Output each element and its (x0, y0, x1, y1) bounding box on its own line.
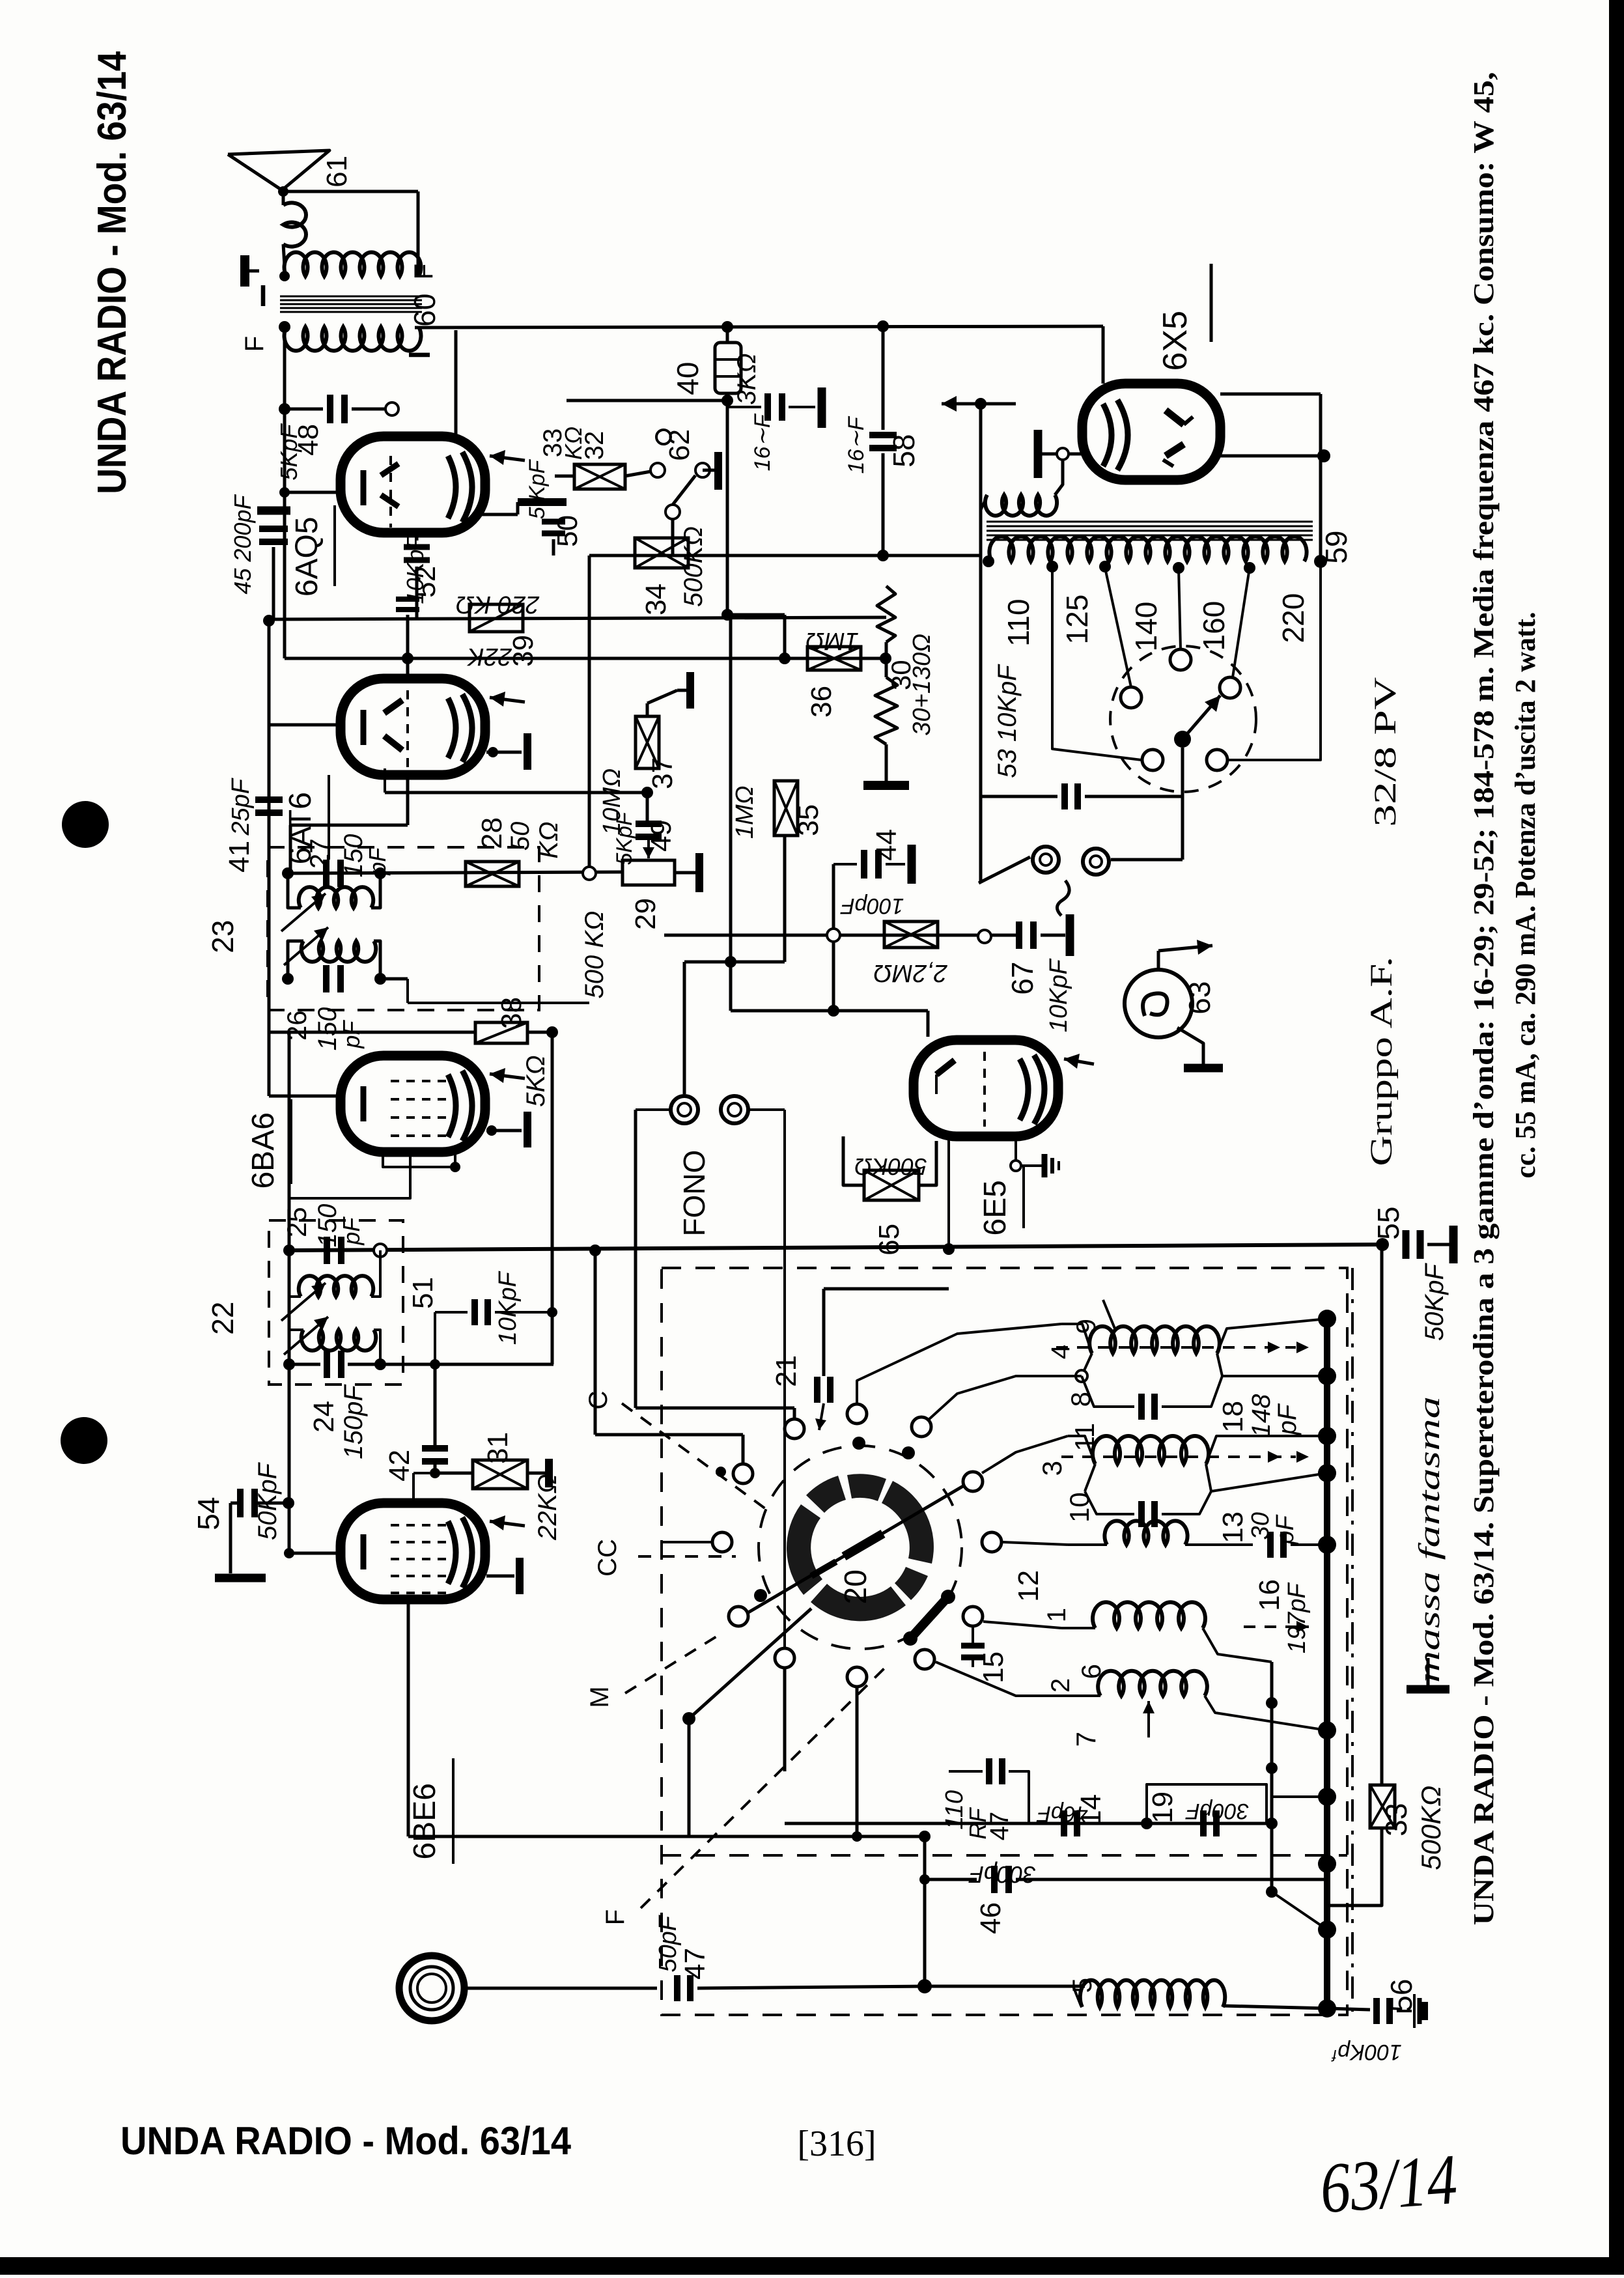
wire 6AT6 bottom (406, 771, 410, 825)
wire x1122 (729, 615, 733, 1011)
lamp ground (1177, 1028, 1203, 1065)
resistor R40 3K (715, 343, 741, 393)
svg-text:19: 19 (1147, 1792, 1179, 1823)
osc coil 9-4-8 (1089, 1327, 1220, 1353)
svg-text:65: 65 (873, 1224, 905, 1256)
wire 6AT6 plate to y1217 (385, 791, 647, 794)
contact c3 (912, 1417, 931, 1437)
wire y1477 (684, 961, 785, 964)
capacitor C45 200pF (257, 507, 290, 515)
antenna 61 (228, 150, 329, 190)
svg-text:29: 29 (630, 898, 662, 930)
resistor R28 50K (466, 862, 519, 886)
svg-text:50: 50 (552, 515, 583, 547)
socket center pin (1174, 731, 1191, 748)
ground bar antenna (240, 255, 249, 287)
node 59 left (983, 555, 994, 567)
capacitor C53 (1061, 783, 1068, 809)
wire y944 link (727, 613, 785, 617)
tap wire 140 (1179, 568, 1181, 649)
wire bus y1011 (285, 657, 886, 660)
wire antenna to frame top (283, 190, 418, 193)
capacitor C55 50KpF (1403, 1230, 1410, 1259)
6BE6 cathode ground (486, 1575, 514, 1578)
svg-text:63: 63 (1183, 981, 1216, 1015)
potentiometer R29 500K (623, 860, 675, 885)
bus node y2205 (1318, 1427, 1336, 1445)
resistor R33 500K (1370, 1785, 1395, 1828)
switch wiper axis (734, 1480, 974, 1621)
dashed arrow 9 (1056, 1346, 1296, 1349)
svg-text:33: 33 (1379, 1803, 1413, 1836)
FONO jack 1 (671, 1096, 698, 1123)
transformer 60 core (280, 296, 422, 298)
capacitor C24 150pF (324, 1351, 330, 1378)
svg-text:500KΩ: 500KΩ (1416, 1786, 1446, 1870)
svg-text:52: 52 (410, 566, 441, 598)
dashed box IF22 (269, 1220, 403, 1385)
node below R40 (721, 395, 733, 406)
capacitor C51 10KpF (471, 1299, 478, 1325)
svg-text:18: 18 (1217, 1401, 1249, 1433)
wire 6X5 top drop (1102, 326, 1105, 384)
bottom bus y2820 (408, 1835, 925, 1838)
capacitor C25pF41 (255, 796, 283, 803)
capacitor C67 10KpF (1016, 921, 1022, 949)
svg-text:CC: CC (593, 1539, 622, 1577)
capacitor C48 5KpF (327, 395, 333, 423)
socket circle (1110, 646, 1256, 792)
wire plate drop (455, 330, 458, 440)
wire contact c4 left (595, 1433, 743, 1437)
wire center pin down (1181, 748, 1184, 860)
svg-text:41: 41 (223, 841, 255, 873)
node x1117 y944 (721, 609, 733, 621)
svg-text:220 KΩ: 220 KΩ (456, 591, 540, 618)
6AT6 cathode ground (486, 751, 522, 754)
bus node y2372 (1318, 1536, 1336, 1554)
svg-text:47: 47 (679, 1948, 711, 1980)
svg-text:62: 62 (664, 429, 695, 461)
svg-text:3KΩ: 3KΩ (733, 353, 761, 404)
grid bus y1920 (289, 1244, 1382, 1250)
osc coil 1-6 (1093, 1602, 1205, 1628)
contact c7 (982, 1532, 1001, 1552)
plate arrow 6E5 (1064, 1059, 1094, 1064)
tap wire 160 (1233, 568, 1250, 677)
contact c10 (775, 1648, 794, 1668)
transformer 60 secondary coil (285, 327, 421, 351)
node bus 584 (374, 1244, 386, 1256)
tube 6BE6 internals (361, 1534, 367, 1569)
IF 22a arrow (281, 1283, 326, 1321)
6BA6 bottom wires (383, 1150, 455, 1167)
node x1420 bottom (917, 1979, 932, 1993)
jack squiggle (1057, 880, 1069, 916)
svg-text:21: 21 (770, 1355, 802, 1387)
wire c9 to coil16 (983, 1622, 1061, 1628)
resistor R30 lower (875, 677, 897, 744)
tube 6AT6 (341, 679, 485, 775)
6E5 cathode ground (1015, 1140, 1017, 1164)
svg-text:22KΩ: 22KΩ (533, 1474, 562, 1541)
svg-text:32: 32 (580, 431, 609, 460)
wire x1051 drop to fono (683, 962, 686, 1094)
svg-text:6BE6: 6BE6 (408, 1783, 442, 1859)
capacitor C47b 110RF (986, 1758, 992, 1784)
svg-text:100Kpᶠ: 100Kpᶠ (1330, 2040, 1401, 2064)
wire switch to bus (671, 519, 675, 555)
node y1217 (641, 787, 653, 798)
IF 22b arrow (284, 1317, 328, 1355)
svg-text:massa fantasma: massa fantasma (1412, 1396, 1446, 1683)
cathode top plate bar (518, 498, 567, 506)
svg-text:I: I (402, 351, 436, 359)
capacitor C19 300pF (1200, 1810, 1207, 1836)
svg-text:F: F (601, 1909, 630, 1925)
capacitor C58 16uF (882, 326, 885, 430)
socket pin NE (1220, 677, 1240, 698)
punch hole lower (61, 1417, 107, 1464)
node 59 right (1314, 555, 1327, 568)
bus node y2862 (1318, 1855, 1336, 1873)
svg-text:35: 35 (792, 804, 824, 836)
svg-text:6X5: 6X5 (1156, 311, 1194, 371)
svg-text:61: 61 (321, 156, 353, 188)
node y1011 left (402, 653, 413, 664)
svg-text:110: 110 (1001, 598, 1035, 646)
svg-text:42: 42 (384, 1450, 415, 1482)
svg-text:5KΩ: 5KΩ (522, 1055, 550, 1106)
svg-text:UNDA RADIO - Mod. 63/14: UNDA RADIO - Mod. 63/14 (120, 2119, 572, 2163)
wire left col to C54 (288, 1032, 291, 1553)
switch 20 dashed circle (759, 1446, 962, 1649)
choke coil (985, 495, 1057, 516)
svg-text:cc. 55 mA, ca. 290 mA. Potenza: cc. 55 mA, ca. 290 mA. Potenza d’uscita … (1509, 612, 1541, 1178)
svg-text:16∼F: 16∼F (750, 413, 775, 471)
node tap140 (1173, 562, 1184, 574)
dashed line inner (662, 1854, 1347, 1857)
svg-text:220: 220 (1276, 593, 1310, 643)
capacitor C26 150pF (323, 965, 329, 992)
wire secondary left down (283, 327, 287, 621)
wire detector line (589, 554, 981, 557)
node tap160 (1244, 562, 1255, 574)
capacitor C27 150pF (323, 860, 329, 887)
tube 6AQ5 internals (361, 470, 367, 505)
node AVC bus C58 (877, 550, 889, 561)
junction circle y1341 (583, 867, 596, 880)
wire 6E5 cathode to bus (947, 1140, 950, 1250)
svg-text:M: M (585, 1686, 614, 1708)
socket pin SW (1142, 750, 1163, 770)
tap wire 125 (1105, 568, 1131, 687)
wire vol bus (406, 979, 409, 1003)
lamp wire arrow (1157, 951, 1160, 970)
socket pin N (1170, 649, 1191, 670)
B+ arrow (982, 402, 1016, 406)
svg-text:22K: 22K (467, 643, 512, 670)
wire left col x1506 (979, 402, 983, 796)
svg-text:5: 5 (1067, 1978, 1097, 1993)
svg-text:50pF: 50pF (654, 1915, 682, 1972)
contact c5 (963, 1472, 983, 1491)
svg-text:100pF: 100pF (840, 893, 904, 918)
wire c2 to coil9 top (857, 1324, 1061, 1403)
svg-text:25pF: 25pF (227, 778, 255, 836)
svg-text:49: 49 (645, 820, 677, 852)
switch 20 wedge SE (895, 1567, 928, 1600)
svg-text:1MΩ: 1MΩ (805, 627, 859, 654)
wire x848 (551, 1032, 554, 1364)
switch 20 dark arc top A2 (882, 1481, 934, 1564)
svg-text:23: 23 (206, 920, 240, 953)
svg-text:9: 9 (1071, 1319, 1101, 1334)
dashed box oscillator (662, 1268, 1347, 2015)
svg-text:34: 34 (640, 584, 672, 615)
svg-text:1MΩ: 1MΩ (731, 785, 759, 839)
contact c9 (963, 1607, 983, 1626)
resistor R32 33K (574, 464, 625, 489)
svg-text:6E5: 6E5 (978, 1180, 1013, 1235)
contact dot c (716, 1467, 726, 1477)
svg-text:63/14: 63/14 (1317, 2139, 1459, 2228)
transformer 60 primary coil (285, 252, 421, 276)
wire c5 to coil11 (982, 1436, 1068, 1473)
svg-text:2: 2 (1046, 1678, 1075, 1693)
svg-text:148: 148 (1247, 1394, 1276, 1437)
contact c8 (729, 1607, 748, 1626)
svg-text:7: 7 (1071, 1732, 1101, 1747)
right edge black bar (1609, 0, 1624, 2257)
svg-text:[316]: [316] (797, 2124, 876, 2164)
cathode bar R30 (885, 744, 888, 781)
capacitor C13 30pF (1138, 1501, 1145, 1527)
wire R34 left drop (588, 555, 591, 872)
svg-text:14: 14 (1075, 1794, 1107, 1826)
node grid line (279, 403, 290, 415)
svg-text:13: 13 (1217, 1512, 1249, 1543)
capacitor C14 46pF (1061, 1810, 1067, 1836)
capacitor C15 (961, 1643, 985, 1649)
junction circle grid (385, 402, 399, 415)
bottom black bar (0, 2257, 1624, 2275)
wire 1953 to bus (1272, 1795, 1327, 1798)
svg-text:12: 12 (1013, 1570, 1044, 1602)
coil7 arrow (1147, 1701, 1150, 1737)
IF 23b arrow (284, 927, 328, 965)
wire 6BA6 grid pin (269, 1095, 341, 1098)
tube 6BA6 (341, 1056, 485, 1152)
wire fono right (748, 1108, 785, 1111)
IF coil 23b (301, 941, 376, 962)
svg-text:Gruppo A.F.: Gruppo A.F. (1364, 957, 1399, 1166)
wire 6BE6 cathode drop (407, 1603, 410, 1836)
node 6X5 right low (1220, 455, 1324, 458)
svg-text:15: 15 (977, 1652, 1009, 1683)
svg-text:39: 39 (507, 635, 539, 667)
contact c11 (847, 1667, 867, 1687)
contact dot a (852, 1437, 865, 1450)
svg-text:60: 60 (408, 294, 441, 327)
capacitor C49 5KpF (636, 821, 662, 827)
resistor R34 500K (635, 538, 688, 568)
tap wire 220 (1228, 561, 1321, 760)
svg-text:1: 1 (1043, 1608, 1071, 1622)
wire x1058 bottom (688, 1719, 691, 1836)
volume line y1341 (288, 872, 623, 873)
tube 6E5 (914, 1040, 1058, 1136)
node R30 mid (885, 642, 888, 677)
resistor R2.2M (884, 921, 938, 948)
node tap125 (1099, 561, 1111, 572)
bus node y3084 (1318, 1999, 1336, 2018)
lamp jack A (1033, 847, 1059, 873)
transformer 59 coil (989, 537, 1306, 561)
punch hole upper (62, 801, 109, 848)
bus node y2025 (1318, 1310, 1336, 1328)
svg-text:pF: pF (338, 1020, 365, 1049)
resistor R31 22K (473, 1460, 527, 1489)
svg-text:16∼F: 16∼F (844, 415, 869, 473)
dashed box IF23 (268, 847, 539, 1010)
capacitor C52 10KpF (404, 544, 430, 550)
node primary left (279, 271, 290, 281)
resistor R36 1M (807, 647, 861, 670)
svg-text:37: 37 (647, 757, 679, 789)
tube 6BE6 (341, 1503, 485, 1599)
svg-text:3: 3 (1037, 1461, 1067, 1476)
node secondary left (279, 321, 290, 333)
wire c3 to coil9 (929, 1376, 1082, 1420)
contact c6 (712, 1532, 732, 1552)
resistor R35 1M (774, 781, 798, 836)
osc coil 2-7 (1098, 1671, 1207, 1696)
switch 20 dark arc top A1 (847, 1474, 886, 1501)
ground plate C41 (818, 387, 826, 428)
svg-text:31: 31 (482, 1432, 514, 1464)
masse ground sym (1427, 1658, 1430, 1685)
switch lever black (910, 1597, 948, 1638)
svg-text:C: C (584, 1391, 613, 1410)
bus node y2759 (1318, 1788, 1336, 1806)
pickup wire (464, 1987, 657, 1990)
capacitor C47 50pF (674, 1975, 680, 2001)
svg-text:500 KΩ: 500 KΩ (580, 911, 609, 999)
lamp jack B (1083, 849, 1109, 875)
ground R37 (677, 689, 690, 692)
svg-text:6BA6: 6BA6 (246, 1112, 281, 1188)
svg-text:500KΩ: 500KΩ (679, 526, 708, 607)
wire 6BE6 top (412, 1473, 415, 1503)
svg-text:24: 24 (308, 1401, 340, 1433)
switch diag to M node (689, 1609, 811, 1719)
IF 23a arrow (281, 893, 326, 931)
wire left col y950-1583 (268, 621, 271, 1031)
svg-text:38: 38 (496, 997, 527, 1029)
svg-text:FONO: FONO (677, 1150, 711, 1237)
osc coil 12 (1104, 1521, 1187, 1545)
wire c12 to coil27 (936, 1662, 1068, 1696)
node bus 914 (589, 1244, 601, 1256)
svg-text:UNDA RADIO - Mod. 63/14: UNDA RADIO - Mod. 63/14 (90, 51, 135, 494)
wire y1552 (731, 1009, 928, 1013)
tube 6X5 internals (1103, 400, 1128, 470)
osc coil 5 (1080, 1980, 1225, 2007)
svg-text:300pF: 300pF (968, 1861, 1036, 1888)
bus node y2963 (1318, 1920, 1336, 1939)
socket pin NW (1121, 687, 1141, 708)
wire x1280 (832, 864, 835, 1011)
node top bus C58 (877, 320, 889, 332)
socket pin SE (1207, 750, 1227, 770)
svg-text:27: 27 (304, 838, 335, 869)
wire x914 col (594, 1250, 597, 1435)
bus node y2657 (1318, 1721, 1336, 1739)
svg-text:150pF: 150pF (339, 1384, 368, 1459)
wire frame right vertical (417, 191, 420, 276)
svg-text:45 200pF: 45 200pF (229, 494, 256, 595)
IF coil 22a (299, 1276, 373, 1297)
socket wiper arrow (1183, 696, 1220, 739)
wire contact c6 left (662, 1541, 711, 1543)
contact c1 (785, 1419, 804, 1439)
svg-text:40: 40 (671, 362, 705, 395)
svg-text:48: 48 (292, 424, 324, 456)
svg-text:46: 46 (975, 1902, 1007, 1934)
bus node y2113 (1318, 1367, 1336, 1385)
wire 6BE6 grid pin (289, 1552, 341, 1555)
wire x1420 riser (923, 1836, 927, 1986)
svg-text:67: 67 (1005, 962, 1039, 995)
tube 6AT6 internals (361, 710, 367, 745)
svg-text:59: 59 (1319, 531, 1353, 564)
capacitor C56 100Kp (1373, 1998, 1380, 2024)
capacitor C25b 150pF (324, 1237, 330, 1264)
contact dot d (754, 1589, 767, 1602)
resistor R39 22K (469, 604, 523, 632)
wire to lamp jack (1111, 858, 1183, 862)
cap46 row (925, 1878, 977, 1881)
jack lever (979, 857, 1030, 883)
svg-text:20: 20 (839, 1569, 873, 1604)
wire x1205 contact drop (783, 1669, 787, 1771)
svg-text:22: 22 (206, 1302, 240, 1335)
tube 6X5 (1082, 384, 1220, 480)
wire 6X5 right top (1220, 393, 1321, 396)
svg-text:10: 10 (1064, 1492, 1095, 1523)
tube 6AQ5 (341, 436, 485, 533)
svg-text:51: 51 (407, 1277, 439, 1309)
svg-text:10KpF: 10KpF (494, 1271, 522, 1345)
plate arrow 6BA6 (490, 1074, 525, 1078)
svg-text:58: 58 (887, 434, 921, 468)
switch 20 dark arc bottom (811, 1584, 906, 1621)
plate arrow 6AQ5 (490, 456, 525, 460)
svg-text:53 10KpF: 53 10KpF (993, 664, 1022, 778)
antenna coupling coil (283, 203, 306, 246)
svg-text:300pF: 300pF (1185, 1799, 1250, 1823)
node top bus R40 (721, 321, 733, 333)
svg-text:36: 36 (805, 686, 837, 718)
svg-text:500KΩ: 500KΩ (854, 1153, 927, 1180)
svg-text:47: 47 (985, 1812, 1014, 1841)
capacitor C54 50KpF (255, 1502, 288, 1505)
6X5 cathode bar (1034, 430, 1043, 478)
AVC bus y1436 (664, 934, 1017, 937)
dashed arrow 11 (1061, 1455, 1296, 1458)
svg-text:50KpF: 50KpF (1420, 1263, 1449, 1341)
